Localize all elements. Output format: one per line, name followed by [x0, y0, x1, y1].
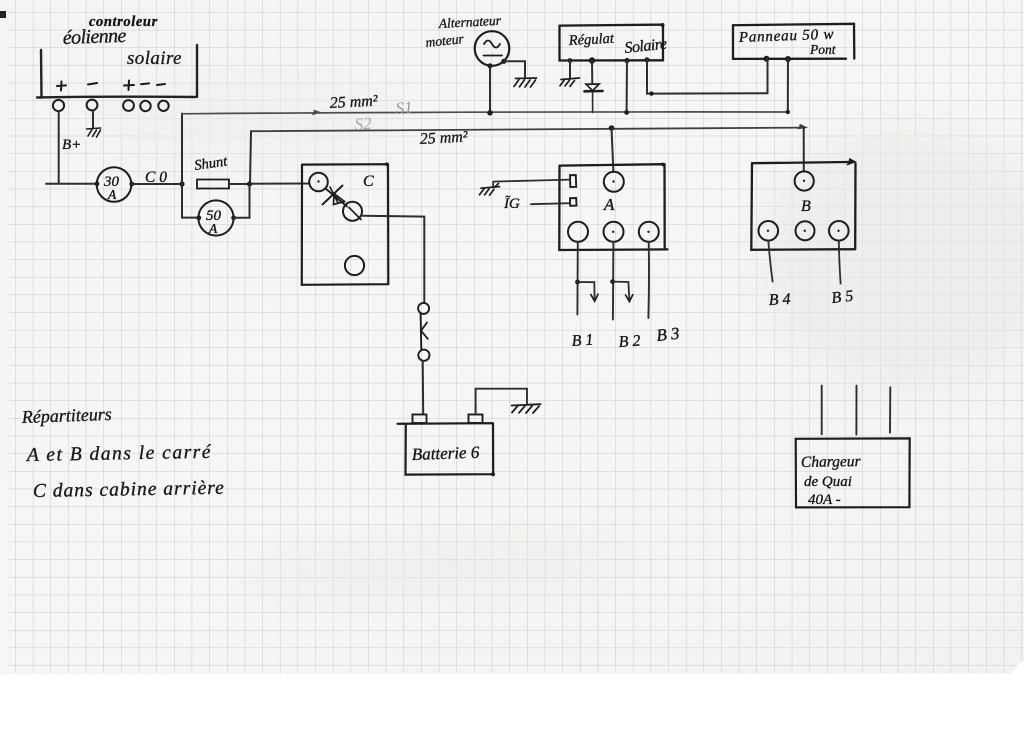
ammeter 50A: [198, 200, 233, 235]
wire C2 out right and down: [362, 216, 424, 303]
svg-text:B 5: B 5: [831, 288, 854, 307]
ground symbol alternator: [514, 78, 537, 87]
box C outline: [302, 164, 389, 285]
svg-text:B: B: [801, 198, 811, 215]
node S2 to box A junction: [609, 125, 615, 131]
wire K to battery: [422, 361, 425, 414]
node 50A right: [231, 215, 236, 220]
fuse slot 2 on box A: [570, 198, 577, 206]
switch K bottom contact: [418, 350, 429, 361]
node regulator T4: [644, 57, 649, 62]
wire B5: [839, 241, 841, 284]
node regulator T2: [589, 57, 595, 63]
node CO left: [95, 181, 100, 186]
wire riser to S1: [181, 114, 183, 185]
wire 50A right rise: [234, 184, 250, 218]
wire diode to S1: [592, 93, 594, 113]
terminal B1c: [759, 221, 779, 241]
B2 branch arrow: [613, 282, 630, 299]
scan mark top-left: [0, 11, 6, 18]
svg-text:B 1: B 1: [571, 332, 594, 350]
shunt resistor: [197, 180, 229, 189]
chargeur input line 1: [821, 386, 823, 435]
box B outline: [751, 162, 855, 250]
svg-text:B 2: B 2: [618, 333, 641, 351]
wire S2 horizontal: [251, 128, 805, 132]
node alternator right: [501, 59, 506, 64]
svg-text:C dans cabine arrière: C dans cabine arrière: [33, 478, 225, 502]
svg-text:éolienne: éolienne: [62, 25, 126, 49]
terminal circle 4: [140, 101, 150, 111]
wire B4: [768, 241, 772, 282]
svg-text:S1: S1: [395, 98, 413, 118]
svg-text:A: A: [107, 187, 117, 202]
svg-text:ĨG: ĨG: [503, 195, 520, 212]
wire CO to shunt junction: [132, 183, 182, 185]
wire alternator down to S1: [489, 66, 491, 113]
wire S1 horizontal: [182, 112, 788, 114]
svg-text:25 mm²: 25 mm²: [419, 128, 469, 148]
box A outline: [559, 164, 667, 250]
B1 branch arrow: [578, 282, 595, 299]
wire B2: [612, 242, 615, 320]
wire P1 down-left to regulator T4: [767, 59, 769, 93]
battery terminal left: [413, 415, 427, 424]
wire T4 to panneau: [647, 60, 768, 94]
wire T2 to diode: [591, 61, 593, 84]
svg-text:A et B dans le carré: A et B dans le carré: [25, 442, 212, 466]
blade arrowhead: [334, 194, 345, 205]
wire 50A left drop: [182, 184, 199, 218]
ground symbol battery: [512, 404, 541, 413]
node regulator T3: [624, 58, 629, 63]
ground symbol regulator: [560, 78, 580, 86]
K letter strokes: [421, 323, 428, 339]
wire CO to box C: [250, 183, 310, 185]
switch K top contact: [418, 303, 429, 314]
svg-text:Répartiteurs: Répartiteurs: [20, 404, 112, 427]
svg-text:B+: B+: [62, 137, 81, 153]
wire shunt to node: [229, 183, 250, 185]
wire battery+ to ground: [476, 389, 527, 415]
chargeur input line 3: [889, 387, 891, 432]
terminal A3: [639, 222, 659, 242]
spare contact C3: [345, 256, 364, 275]
node on T4 wire: [649, 91, 653, 95]
ammeter 30A: [97, 167, 132, 202]
breaker contact C2: [343, 202, 362, 221]
wire S2 left riser: [250, 131, 251, 184]
wire T3 down to S1: [626, 61, 628, 113]
node shunt left junction: [179, 181, 184, 186]
controleur box outline: [37, 45, 197, 98]
terminal B-top: [795, 171, 814, 190]
svg-text:Chargeur: Chargeur: [801, 453, 862, 471]
terminal circle 1: [53, 100, 64, 111]
svg-text:C: C: [363, 173, 374, 190]
node T3-S1 junction: [624, 110, 629, 115]
breaker blade with cross: [326, 189, 348, 207]
wire S2 junction down to box A: [612, 128, 614, 172]
svg-text:de Quai: de Quai: [804, 474, 852, 490]
terminal circle 2: [87, 100, 98, 111]
wire B1: [576, 242, 578, 315]
svg-text:40A -: 40A -: [808, 492, 841, 508]
svg-text:C 0: C 0: [145, 169, 167, 186]
switch K blade: [420, 314, 423, 350]
regulateur solaire box: [560, 25, 664, 61]
panneau solaire box: [733, 24, 854, 59]
node S1 right end: [786, 110, 790, 114]
node S1 alternator junction: [487, 110, 493, 116]
svg-text:S2: S2: [354, 114, 373, 134]
node regulator T1: [568, 58, 573, 63]
terminal B3c: [829, 221, 849, 241]
node CO right: [129, 182, 134, 187]
node shunt right junction: [247, 181, 252, 186]
wire B+ vertical: [58, 111, 60, 183]
terminal circle 5: [158, 101, 168, 111]
wire CO left: [46, 183, 97, 185]
svg-text:Pont: Pont: [809, 42, 837, 57]
node alternator bottom: [487, 63, 492, 68]
svg-text:Batterie 6: Batterie 6: [411, 443, 480, 464]
box B top-right arrow tick: [847, 159, 855, 165]
wire B3: [647, 242, 650, 318]
terminal A-top: [604, 172, 624, 192]
battery terminal right: [469, 415, 483, 424]
wire P2 down to S1: [787, 59, 789, 112]
svg-text:25 mm²: 25 mm²: [329, 92, 379, 112]
terminal circle 3: [123, 100, 134, 111]
wire ground to slot1: [493, 180, 570, 187]
wire S2 right end arrow into box B: [798, 125, 806, 129]
chargeur quai box: [796, 438, 910, 507]
diode D1: [586, 84, 599, 91]
node panneau P1: [764, 56, 770, 62]
alternator AC source G1: [475, 31, 510, 66]
svg-text:solaire: solaire: [127, 48, 182, 69]
node 50A left: [196, 215, 201, 220]
terminal polarity marks: [57, 81, 165, 91]
breaker contact C1: [309, 173, 328, 192]
fuse slot 1 on box A: [570, 175, 576, 187]
wire IG to slot2: [531, 203, 570, 204]
wire alternator to ground: [504, 61, 525, 77]
node panneau P2: [785, 56, 791, 62]
svg-text:B 4: B 4: [768, 291, 791, 309]
svg-text:B 3: B 3: [655, 324, 680, 345]
battery box: [398, 423, 494, 474]
wire T1 to ground: [569, 61, 571, 78]
chargeur input line 2: [855, 386, 857, 435]
ground symbol IG: [480, 184, 500, 196]
wire terminal2 to ground: [92, 111, 94, 129]
node S1 tick: [313, 111, 319, 115]
terminal A2: [604, 222, 624, 242]
svg-text:Régulat: Régulat: [567, 31, 615, 49]
ground symbol controller: [87, 128, 101, 137]
terminal A1: [568, 222, 588, 242]
terminal B2c: [796, 221, 815, 240]
svg-text:A: A: [603, 195, 615, 214]
svg-text:A: A: [208, 221, 218, 236]
